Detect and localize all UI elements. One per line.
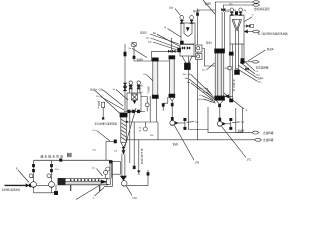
svg-text:管道B: 管道B (205, 2, 212, 6)
svg-text:去加药泵: 去加药泵 (233, 78, 236, 92)
feed pipe to column B (152, 52, 179, 61)
bottom cap B (152, 95, 158, 99)
svg-text:管道A: 管道A (98, 100, 101, 110)
wire vapor line to pill2 (223, 5, 252, 12)
svg-text:45c—45g: 45c—45g (183, 74, 193, 76)
valve circle on right loop (145, 103, 149, 107)
flash vessel 8 body (181, 23, 195, 44)
wire under box 24 (102, 108, 104, 119)
pipe 废水输水管道 (34, 159, 111, 161)
valve on waste water pipe (60, 159, 63, 162)
valve on wall (246, 68, 249, 71)
hopper 24 (121, 117, 127, 143)
svg-text:9a: 9a (129, 48, 132, 50)
downcomer pipe left pair of vessel 7 (230, 44, 233, 102)
svg-text:管道D: 管道D (193, 9, 200, 13)
wire box edge to feed pill (208, 130, 252, 133)
center nozzle of vessel 7 (235, 12, 237, 16)
svg-text:管道N: 管道N (206, 41, 212, 45)
riser P2 with valves (50, 160, 52, 181)
svg-text:G6: G6 (139, 128, 143, 130)
bottom cap A (169, 94, 175, 98)
pump P2 (49, 182, 55, 193)
svg-text:6b: 6b (244, 10, 247, 12)
svg-text:未处理垃圾渗滤液: 未处理垃圾渗滤液 (2, 188, 21, 192)
downcomer from vessel 9 (189, 57, 209, 130)
pipe right of vessel 8 (197, 9, 199, 140)
svg-text:39: 39 (139, 131, 142, 133)
svg-text:去三级内置分离器的蒸发器: 去三级内置分离器的蒸发器 (258, 32, 289, 36)
wire column B down to box (156, 99, 158, 123)
flange on downcomer (229, 52, 233, 55)
svg-text:7cf: 7cf (255, 71, 258, 73)
svg-text:来自喷淋冷凝室管路: 来自喷淋冷凝室管路 (95, 121, 118, 125)
arrow feed into vessel 7 (245, 30, 248, 33)
svg-text:去进料槽: 去进料槽 (263, 138, 274, 142)
riser with valve at 134 (132, 43, 136, 61)
valve 62 right of vessel 7 (244, 24, 254, 27)
funnel blob above pump 17A (120, 176, 126, 180)
svg-text:61a: 61a (258, 81, 262, 83)
flange on conveyor riser (109, 161, 112, 164)
flange on vessel 8 wall (180, 41, 183, 44)
ticks on conveyor (70, 179, 99, 181)
U seal pipe left of column A (163, 97, 168, 111)
riser pipe pair left of vessel 7 (222, 12, 224, 49)
callout to hopper valve (125, 108, 137, 148)
svg-text:去喷淋冷凝室: 去喷淋冷凝室 (254, 7, 270, 11)
motor pump blob of 9 (184, 63, 190, 70)
cone C1 (216, 100, 223, 104)
svg-text:17C: 17C (247, 158, 252, 162)
svg-text:1: 1 (93, 197, 95, 200)
svg-text:21f: 21f (140, 92, 143, 94)
instrument box 24 (102, 102, 105, 107)
valve on U seal (162, 104, 164, 107)
right wall pipe of vessel 7 (242, 44, 244, 59)
inner basket of vessel 8 (184, 24, 192, 37)
pipe at 138.8 with valve end (138, 140, 141, 174)
wire box to column C1 (203, 49, 216, 67)
svg-text:12a: 12a (92, 167, 96, 169)
column C1 (evaporator 3) (215, 53, 224, 96)
gauge nozzle N1 of vessel 7 (230, 8, 234, 15)
small pump on riser (106, 167, 110, 171)
loop box right of pumps (112, 162, 120, 175)
svg-text:13a: 13a (55, 169, 59, 171)
svg-text:8: 8 (165, 26, 167, 30)
gauge P1 (29, 174, 33, 178)
svg-text:管道A—21b: 管道A—21b (90, 87, 103, 91)
svg-text:管道H: 管道H (137, 57, 144, 61)
top cap A (169, 56, 175, 59)
pump 17A (121, 181, 127, 187)
pump 42a (170, 121, 175, 126)
instrument box right of 9 (196, 45, 203, 52)
pump 42b (217, 121, 222, 126)
arrow under hopper (122, 151, 124, 154)
svg-text:10a: 10a (169, 6, 174, 9)
riser at conveyor end (110, 160, 112, 178)
pipe 管道H (134, 60, 170, 62)
dryer conveyor 1 (58, 178, 108, 184)
svg-text:41a: 41a (202, 70, 206, 72)
svg-text:14: 14 (199, 95, 202, 97)
svg-text:废水输水管道: 废水输水管道 (41, 153, 64, 158)
wire tube to junction (229, 95, 233, 97)
pipe at 134 with dot end (133, 122, 135, 169)
top cap B (152, 58, 158, 61)
discharge arrow pump 42a (175, 122, 178, 125)
hopper cone (121, 143, 127, 148)
svg-text:42a: 42a (195, 121, 199, 123)
end box of conveyor (107, 179, 111, 184)
valve at tube bottom (235, 70, 240, 75)
valve above pump 42a (171, 117, 173, 120)
left standpipe with valves (124, 44, 127, 112)
separator vessel 7 (cyclone) (230, 15, 244, 44)
valve symbol on label (68, 153, 72, 157)
svg-text:8: 8 (16, 167, 18, 171)
conveyor callout 11 (95, 188, 105, 197)
wire C1 to pump2 (219, 107, 221, 118)
flange under cone A (171, 103, 173, 106)
valve on pipe right of vessel 8 (196, 13, 198, 16)
discharge arrow pump 42b (223, 123, 226, 126)
wire under loop box (104, 174, 112, 186)
valve inside 9 right (187, 47, 190, 50)
valve under hopper (122, 147, 125, 151)
riser above column A (171, 38, 173, 50)
long pipe 管道L (127, 139, 255, 141)
svg-text:管道G: 管道G (257, 76, 263, 80)
diagonal callout from pump 17A (126, 186, 132, 196)
outlet pill 去进料槽 upper (252, 131, 259, 134)
flange on loop (54, 191, 57, 194)
svg-text:再生风管道: 再生风管道 (141, 148, 144, 165)
svg-text:管道E: 管道E (267, 47, 274, 51)
standpipe T right of pump 42b (230, 118, 232, 129)
wire with flange to hopper (106, 140, 117, 161)
valve above pump 42b (219, 118, 221, 121)
svg-text:管道M: 管道M (238, 129, 245, 133)
hopper top cap (120, 113, 127, 117)
wire feed to pumps (32, 184, 49, 186)
outlet pill 去喷淋冷凝室 bottom (253, 4, 260, 6)
junction dot (126, 121, 128, 123)
blob at left pipe bottom (121, 114, 125, 118)
wire to press filter pill (244, 61, 252, 63)
pipe right of evaporator 1 (149, 96, 151, 122)
U pipe right (236, 108, 243, 133)
wire vessel 8 pipe to riser (198, 9, 216, 11)
valve inside 9 left (182, 47, 185, 50)
feed arrow line (5, 184, 32, 187)
svg-text:管道D: 管道D (140, 31, 147, 35)
funnel under vessel 9 (182, 56, 192, 63)
right loop of evaporator 1 (141, 97, 147, 103)
wire vapor line to pill1 (215, 2, 252, 49)
heater vessel 9 under vessel 8 (180, 45, 194, 57)
wire drop at 158 (157, 122, 159, 140)
instrument box 2 right of 9 (192, 54, 203, 60)
hopper discharge pipes (122, 154, 125, 176)
conveyor legs (71, 185, 100, 191)
outlet pill 去喷淋冷凝室 top (253, 1, 260, 3)
inner exchanger of evaporator 1 (132, 94, 138, 104)
pump P1 (31, 182, 37, 193)
svg-text:17A: 17A (132, 196, 137, 200)
svg-text:21a: 21a (96, 96, 100, 98)
bottom loop (34, 185, 57, 193)
standpipe T right of pump 42a (184, 118, 186, 129)
svg-text:24a: 24a (92, 149, 96, 151)
svg-text:7: 7 (252, 14, 254, 18)
valve on riser pair (222, 8, 226, 11)
cone A (170, 98, 175, 102)
riser P1 with valves (32, 160, 34, 181)
svg-text:3a: 3a (113, 89, 116, 91)
gauge tower T2 on vessel 8 (190, 16, 194, 24)
svg-text:15g: 15g (256, 74, 260, 76)
bottom cap C1 (215, 96, 225, 100)
arrow into junction (225, 95, 229, 98)
svg-text:33b: 33b (150, 135, 154, 137)
valve under C1 (219, 104, 221, 107)
cone of cyclone 7 (232, 20, 242, 32)
top cap C1 (215, 49, 225, 53)
gauge nozzle N2 of vessel 7 (239, 8, 243, 15)
gauge above conveyor (104, 170, 108, 178)
evaporator 1 body (127, 93, 141, 112)
bottom flanges of evaporator 1 (128, 110, 140, 113)
flange on vessel 9 left wall (178, 48, 181, 52)
flange at right pipe bottom (241, 59, 244, 64)
instrument box right of C1 (225, 67, 232, 70)
conveyor discharge arrow (101, 180, 107, 183)
svg-text:管道L: 管道L (173, 142, 180, 146)
gauge P2 (47, 174, 52, 178)
drop pipe with valve at 148 (147, 170, 149, 186)
svg-text:去进料槽: 去进料槽 (263, 131, 274, 135)
svg-text:42e: 42e (140, 86, 144, 88)
svg-text:43b: 43b (148, 41, 152, 43)
svg-text:17B: 17B (195, 161, 200, 165)
junction dot under box 24 (102, 118, 104, 120)
svg-text:42c: 42c (241, 122, 245, 124)
discharge line pump 17A (127, 185, 148, 187)
pipe from flange down (129, 113, 131, 163)
column A (evaporator 2) (170, 56, 175, 95)
pipe 管道K horizontal (126, 121, 158, 123)
svg-text:管道K: 管道K (147, 85, 150, 94)
blob at downcomer bottom (230, 99, 234, 102)
svg-text:43a: 43a (146, 37, 150, 39)
outlet pill 去进料槽 lower (255, 138, 262, 141)
evaporator 1 nozzle towers (129, 81, 132, 93)
bottom line evaporator 1 (124, 111, 145, 113)
valves above column A (168, 50, 175, 53)
svg-text:8a: 8a (153, 32, 156, 35)
svg-text:21c: 21c (92, 130, 96, 132)
dip tube of cyclone 7 (236, 30, 239, 71)
svg-text:去压滤系统: 去压滤系统 (256, 65, 269, 69)
outlet pill 去压滤系统 (252, 61, 259, 64)
svg-text:24c: 24c (114, 151, 118, 153)
conveyor callout 1 (76, 185, 100, 200)
svg-text:4: 4 (246, 108, 248, 112)
valve circle 39 (143, 122, 147, 131)
column B (preheater) (153, 61, 158, 96)
wire diagonal callout top (203, 0, 215, 14)
svg-text:14b: 14b (187, 82, 191, 84)
inlet pill 来自蒸发器 (253, 30, 260, 33)
wire cone A to pump (171, 101, 173, 121)
gauge tower T1 on vessel 8 (180, 16, 184, 24)
